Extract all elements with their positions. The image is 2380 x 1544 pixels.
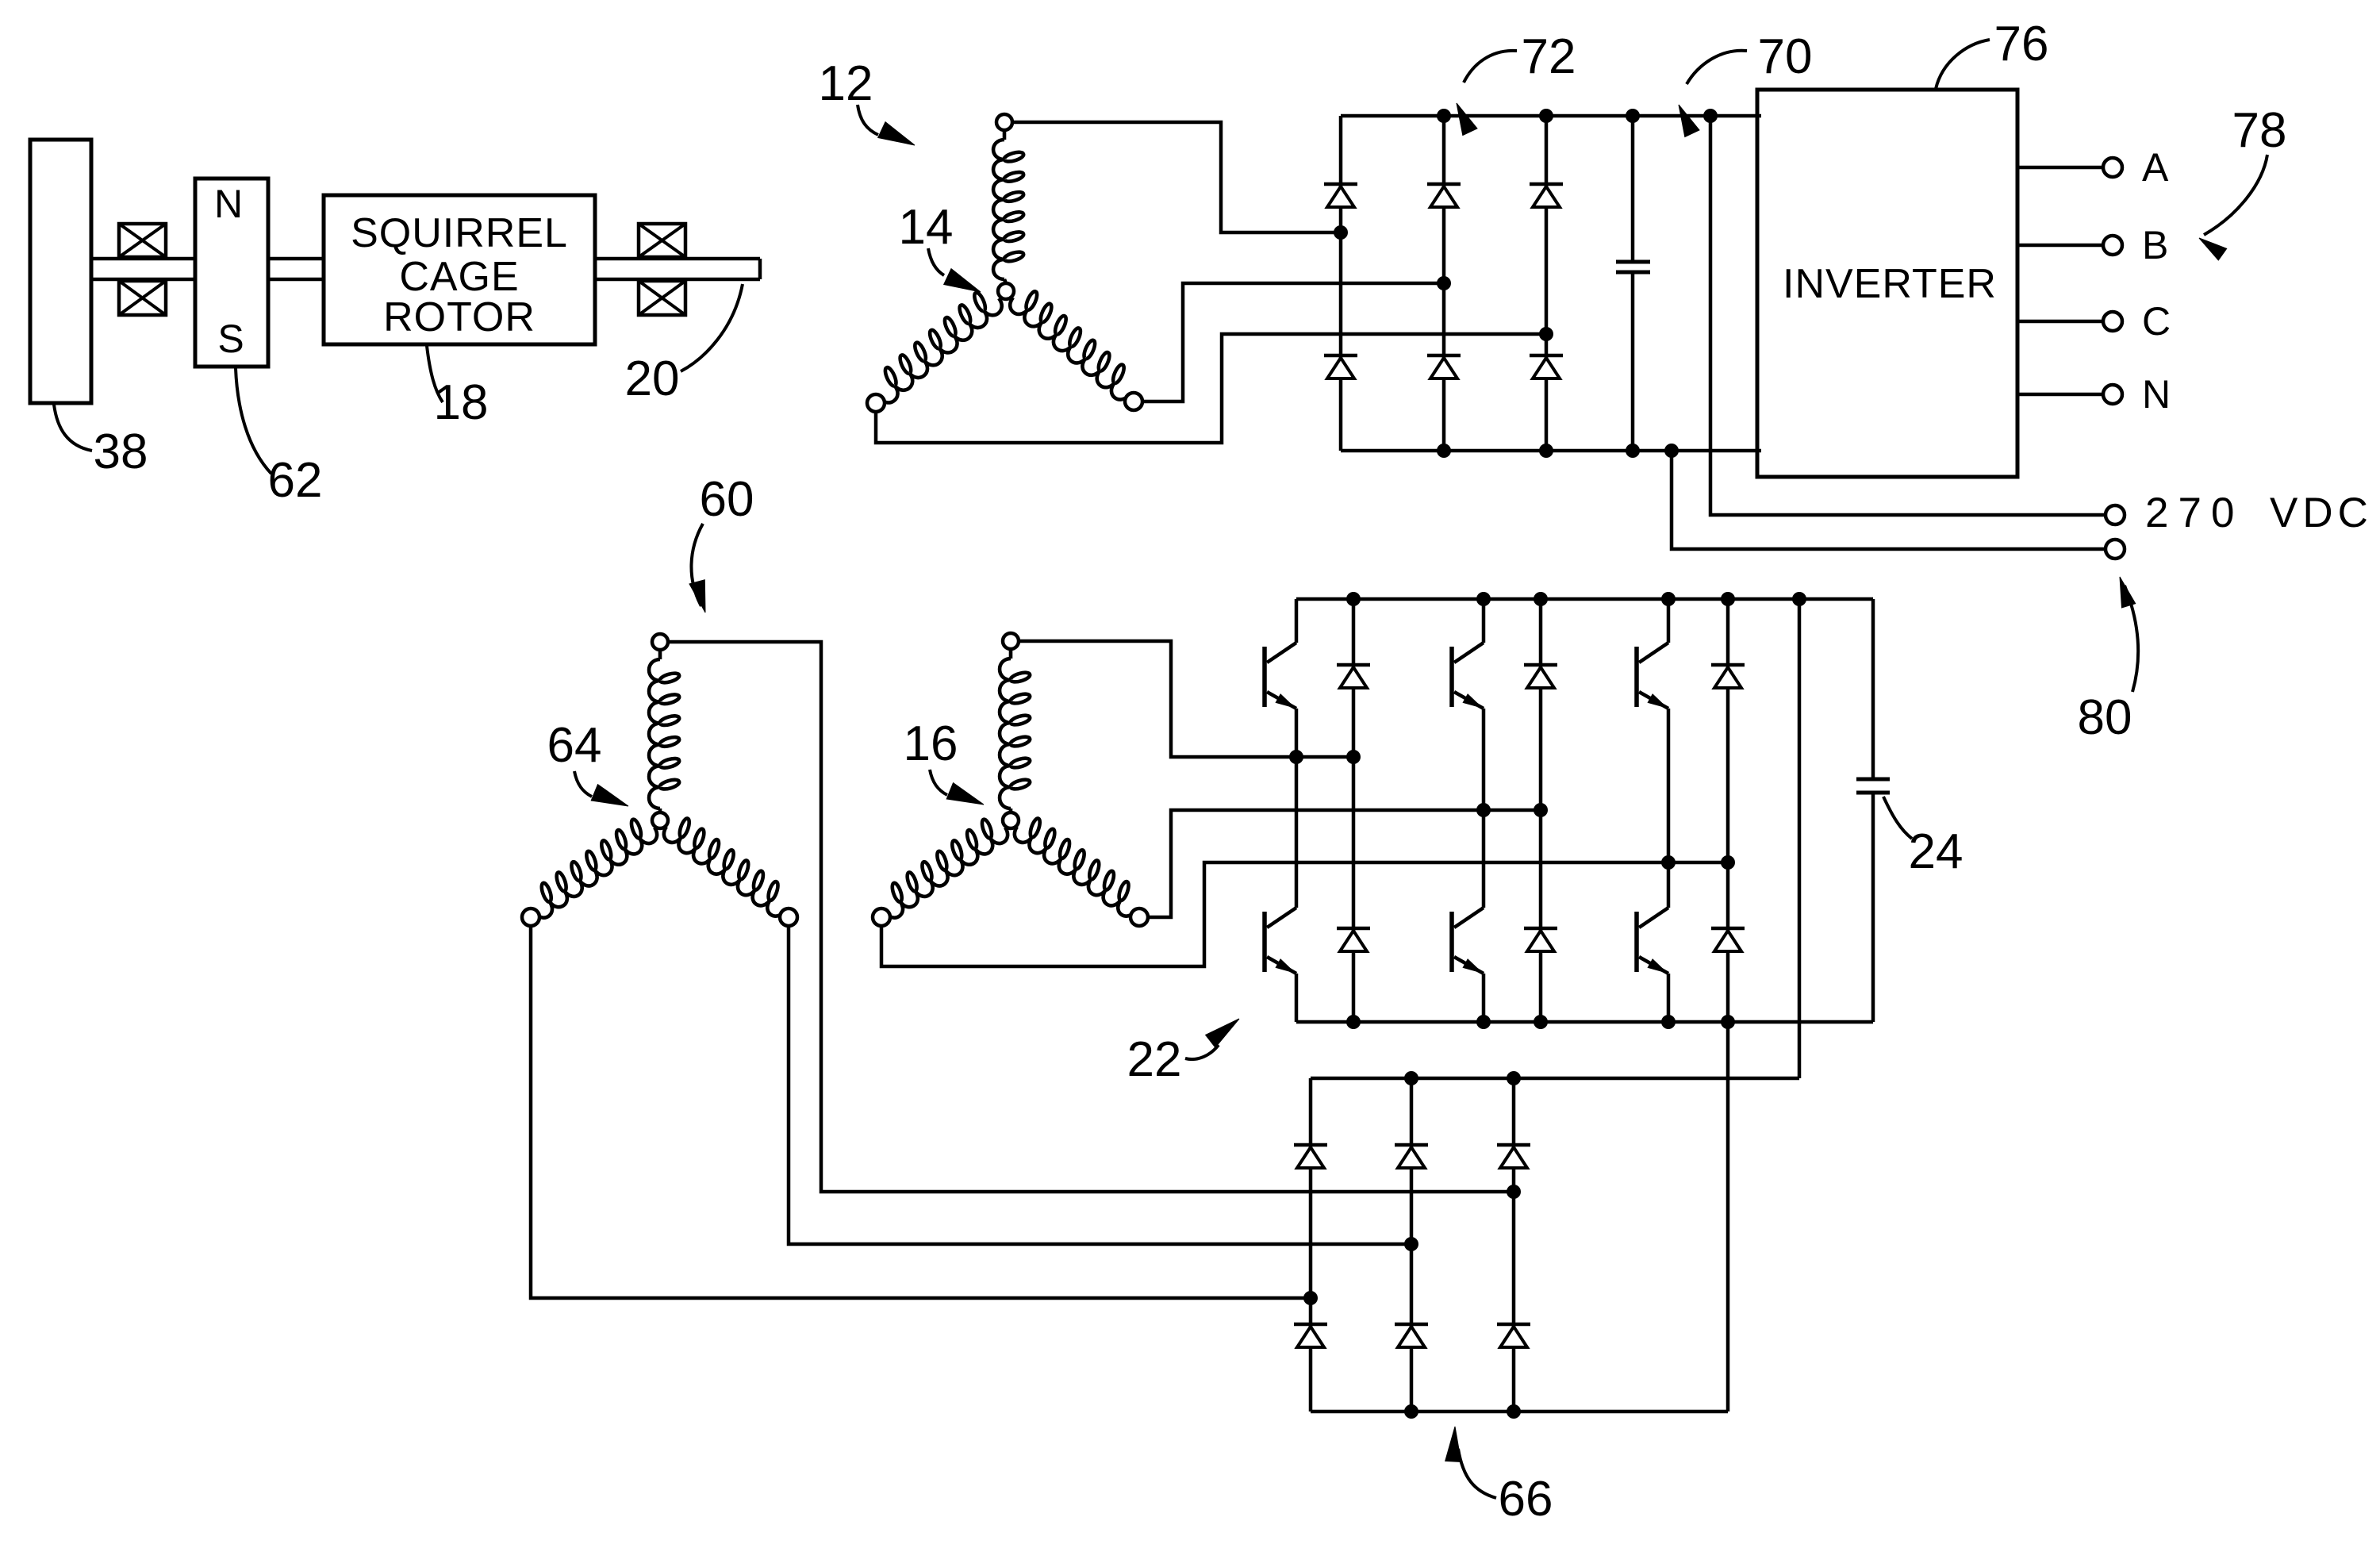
capacitor 70 bottom lead (1631, 272, 1635, 451)
label 38 leader (54, 405, 92, 451)
winding 12 left terminal (867, 394, 885, 412)
label 72 leader (1464, 51, 1517, 83)
wire 60 phase C to rect66 (531, 926, 1311, 1298)
svg-text:60: 60 (700, 472, 754, 527)
svg-text:14: 14 (899, 200, 954, 255)
wire 12 phase A to rectifier (1012, 122, 1341, 232)
svg-text:N: N (2142, 372, 2171, 417)
diode D16 (bottom leg1) (1294, 1323, 1327, 1327)
svg-text:38: 38 (94, 424, 148, 479)
rect66 leg2 wire (1410, 1078, 1414, 1411)
capacitor 70 top lead (1631, 116, 1635, 262)
wire bridge+ to rect66 top bus (1798, 599, 1802, 1078)
svg-text:ROTOR: ROTOR (383, 294, 535, 340)
diode D8 (upper leg2) (1524, 663, 1557, 667)
svg-text:A: A (2142, 145, 2169, 190)
rectifier leg 3 wire (1545, 116, 1549, 451)
label 18 leader (427, 346, 443, 402)
wire 60 phase A to rect66 (669, 642, 1514, 1192)
shaft segment right (595, 259, 760, 279)
diode leg2 wire top (1539, 599, 1543, 810)
rect66 top bus (1311, 1077, 1799, 1081)
capacitor 24 top lead (1871, 599, 1875, 779)
terminal N (2103, 385, 2122, 404)
node 14 (neutral) terminal (998, 283, 1014, 299)
diode D9 (upper leg3) (1711, 663, 1745, 667)
svg-text:80: 80 (2078, 690, 2132, 745)
wire 16 phase B to bridge (1148, 810, 1541, 917)
wire positive DC output (1710, 116, 2104, 515)
winding 16 coil A (vertical) (1009, 649, 1013, 659)
diode D5 (bottom leg2) (1427, 354, 1461, 358)
rect66 leg3 wire (1512, 1078, 1516, 1411)
bridge 22 negative bus (1296, 1020, 1873, 1024)
diode D18 (bottom leg3) (1497, 1323, 1530, 1327)
diode D11 (lower leg2) (1524, 927, 1557, 931)
winding 16 coil C (right slant) (1015, 827, 1135, 916)
diode leg2 wire bottom (1539, 810, 1543, 1022)
squirrel cage rotor 18 box (324, 195, 595, 344)
svg-text:64: 64 (547, 718, 602, 773)
diode D14 (top leg2) (1395, 1143, 1428, 1147)
rect66 top bus dots (1404, 1071, 1418, 1085)
flywheel 38 (30, 140, 91, 403)
svg-text:66: 66 (1499, 1472, 1553, 1527)
label 14 leader (928, 248, 944, 275)
svg-text:C: C (2142, 299, 2171, 344)
label 62 leader (236, 368, 271, 474)
winding 60 coil A (vertical) (658, 650, 662, 659)
bearing B1 upper-left (119, 224, 166, 257)
diode D2 (top leg2) (1427, 182, 1461, 186)
diode D6 (bottom leg3) (1530, 354, 1563, 358)
top bus junction dots (1437, 109, 1451, 123)
terminal A (2103, 158, 2122, 177)
svg-text:VDC: VDC (2270, 490, 2373, 536)
rect66 leg1 wire (1309, 1078, 1313, 1411)
svg-text:78: 78 (2232, 103, 2287, 158)
node phase C junction (1539, 327, 1553, 341)
diode D15 (top leg3) (1497, 1143, 1530, 1147)
bearing B2 lower-right (639, 281, 685, 315)
rectifier leg 1 wire (1339, 116, 1343, 451)
winding 12 phase coil B (left slant) (880, 298, 1002, 403)
winding 16 right terminal (1130, 908, 1148, 926)
winding 60 right terminal (780, 908, 797, 926)
node phase B junction (1437, 276, 1451, 290)
node phase A junction (1334, 225, 1348, 240)
bridge bottom bus dots (1346, 1015, 1361, 1029)
label 76 leader (1936, 40, 1990, 89)
svg-text:INVERTER: INVERTER (1783, 261, 1997, 307)
capacitor 24 plates (1856, 779, 1890, 793)
svg-text:72: 72 (1522, 29, 1576, 84)
rectifier leg 2 wire (1442, 116, 1446, 451)
capacitor 70 plates (1616, 262, 1650, 272)
winding 16 neutral node (1003, 812, 1019, 828)
winding 16 coil B (left slant) (885, 828, 1008, 918)
rect66 bottom bus (1311, 1410, 1728, 1414)
label 20 leader (681, 284, 743, 371)
inverter 76 box (1757, 90, 2017, 477)
winding 16 top terminal (1003, 633, 1019, 649)
svg-text:76: 76 (1994, 17, 2049, 71)
svg-text:70: 70 (1758, 29, 1813, 84)
rect66 phase A node (1507, 1185, 1521, 1199)
transistor Q2 (upper leg2) (1482, 599, 1486, 643)
label 66 leader (1445, 1427, 1461, 1462)
label 24 leader (1883, 797, 1912, 839)
svg-text:270: 270 (2145, 490, 2244, 536)
rect66 bottom bus dots (1404, 1404, 1418, 1419)
diode D13 (top leg1) (1294, 1143, 1327, 1147)
label 12 leader (858, 105, 878, 135)
label 22 leader (1185, 1045, 1219, 1059)
wire bridge- to rect66 right side (1726, 1022, 1730, 1411)
label 80 leader (2125, 586, 2138, 692)
shaft segment left (91, 259, 195, 279)
wire output N (2017, 393, 2104, 397)
label 60 leader (691, 524, 703, 606)
rect66 phase B node (1404, 1237, 1418, 1251)
phase B node dots (1476, 803, 1491, 817)
winding 60 coil C (right slant) (664, 827, 785, 916)
phase C node dots (1661, 855, 1676, 870)
svg-text:62: 62 (268, 453, 323, 508)
diode D1 (top leg1) (1324, 182, 1357, 186)
transistor Q3 (upper leg3) (1667, 599, 1671, 643)
winding 16 left terminal (873, 908, 890, 926)
diode D7 (upper leg1) (1337, 663, 1370, 667)
label 70 leader (1687, 51, 1747, 84)
label 64 leader (574, 771, 592, 797)
magnet 62 box (195, 179, 268, 367)
bearing B1 lower-left (119, 281, 166, 315)
terminal C (2103, 312, 2122, 331)
diode D4 (bottom leg1) (1324, 354, 1357, 358)
svg-text:20: 20 (625, 351, 680, 406)
transistor Q4 (lower leg1) (1295, 757, 1299, 908)
diode leg1 wire top (1352, 599, 1356, 757)
svg-text:CAGE: CAGE (399, 254, 519, 300)
svg-text:16: 16 (904, 716, 958, 771)
diode leg3 wire top (1726, 599, 1730, 862)
svg-text:SQUIRREL: SQUIRREL (351, 210, 568, 256)
svg-text:24: 24 (1909, 824, 1963, 879)
node 64 (neutral) terminal (652, 812, 668, 828)
bridge top bus dots (1346, 592, 1361, 606)
winding 12 phase coil A (vertical) (1003, 130, 1007, 140)
svg-text:18: 18 (434, 375, 489, 430)
wire 12 phase C to rectifier (876, 334, 1546, 443)
wire 16 phase A to bridge (1019, 641, 1353, 757)
label 78 leader (2204, 155, 2267, 235)
rectifier 72 negative bus (1341, 449, 1761, 453)
wire output A (2017, 166, 2104, 170)
terminal -270VDC (2106, 540, 2125, 559)
svg-text:N: N (214, 182, 243, 226)
label 16 leader (930, 770, 947, 795)
terminal +270VDC (2106, 505, 2125, 524)
diode D10 (lower leg1) (1337, 927, 1370, 931)
wire 16 phase C to bridge (881, 862, 1728, 966)
diode D12 (lower leg3) (1711, 927, 1745, 931)
wire 60 phase B to rect66 (789, 926, 1411, 1244)
phase A node dots (1289, 750, 1303, 764)
diode D17 (bottom leg2) (1395, 1323, 1428, 1327)
rect66 phase C node (1303, 1291, 1318, 1305)
transistor Q6 (lower leg3) (1667, 862, 1671, 908)
terminal B (2103, 236, 2122, 255)
diode leg3 wire bottom (1726, 862, 1730, 1022)
wire output B (2017, 244, 2104, 248)
capacitor 24 bottom lead (1871, 793, 1875, 1022)
wire output C (2017, 320, 2104, 324)
winding 12 right terminal (1125, 393, 1142, 410)
bridge 22 positive bus (1296, 597, 1873, 601)
diode leg1 wire bottom (1352, 757, 1356, 1022)
wire 12 phase B to rectifier (1142, 283, 1444, 401)
bottom bus junction dots (1437, 444, 1451, 458)
transistor Q5 (lower leg2) (1482, 810, 1486, 908)
svg-text:B: B (2142, 223, 2168, 267)
winding 60 coil B (left slant) (535, 828, 657, 918)
transistor Q1 (upper leg1) (1295, 599, 1299, 643)
svg-text:S: S (217, 317, 244, 361)
winding 12 phase coil C (right slant) (1010, 298, 1129, 400)
svg-text:12: 12 (819, 56, 873, 111)
svg-text:22: 22 (1127, 1032, 1182, 1087)
bearing B2 upper-right (639, 224, 685, 257)
rectifier 72 positive bus (1341, 114, 1761, 118)
winding 12 top terminal (996, 114, 1012, 130)
winding 60 left terminal (522, 908, 539, 926)
wire negative DC output (1672, 451, 2104, 549)
shaft segment middle (268, 259, 324, 279)
winding 60 top terminal (652, 634, 668, 650)
diode D3 (top leg3) (1530, 182, 1563, 186)
